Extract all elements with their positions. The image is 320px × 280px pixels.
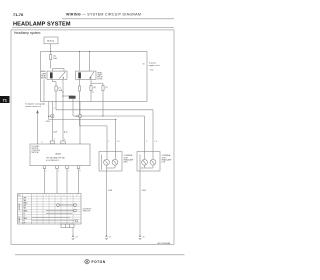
svg-text:71: 71: [2, 97, 7, 102]
svg-text:FOTON: FOTON: [92, 260, 106, 264]
svg-text:16: 16: [143, 64, 145, 66]
svg-text:1 3: 1 3: [155, 141, 157, 143]
svg-text:2: 2: [54, 108, 55, 110]
svg-text:1 3: 1 3: [117, 141, 119, 143]
svg-text:25: 25: [109, 236, 111, 238]
svg-text:OFF: OFF: [23, 197, 26, 199]
svg-text:71-76: 71-76: [13, 12, 24, 17]
svg-text:DIMMER: DIMMER: [19, 216, 21, 223]
svg-text:8: 8: [80, 171, 81, 173]
svg-text:OFF: OFF: [23, 205, 26, 207]
svg-text:(6): (6): [53, 56, 56, 58]
svg-text:WIRING — SYSTEM CIRCUIT DIAGRA: WIRING — SYSTEM CIRCUIT DIAGRAM: [66, 13, 141, 17]
svg-text:LIGHTING: LIGHTING: [19, 203, 21, 211]
svg-text:0.85G: 0.85G: [46, 121, 51, 123]
svg-text:0.85B: 0.85B: [142, 190, 146, 192]
svg-text:supply circuit: supply circuit: [149, 64, 160, 67]
svg-text:5: 5: [58, 171, 59, 173]
svg-text:26: 26: [143, 236, 145, 238]
svg-text:SWITCH): SWITCH): [32, 152, 40, 154]
svg-text:0.85B: 0.85B: [108, 190, 112, 192]
svg-text:(LH): (LH): [162, 162, 166, 164]
svg-text:2: 2: [146, 141, 147, 143]
svg-text:Battery: Battery: [47, 39, 55, 42]
svg-text:HEADLAMP SYSTEM: HEADLAMP SYSTEM: [13, 22, 71, 28]
svg-text:12: 12: [92, 92, 94, 94]
svg-text:(8): (8): [93, 87, 96, 89]
svg-text:system control unit: system control unit: [25, 105, 41, 108]
svg-text:2: 2: [46, 171, 47, 173]
svg-text:fuse: fuse: [150, 70, 154, 72]
svg-text:(LOW): (LOW): [97, 79, 102, 81]
svg-text:(RH): (RH): [124, 162, 128, 164]
svg-text:(HIGH): (HIGH): [41, 78, 47, 80]
svg-text:AC212345AB: AC212345AB: [158, 242, 171, 245]
svg-text:4: 4: [64, 139, 65, 141]
svg-text:Headlamp system: Headlamp system: [14, 31, 41, 35]
svg-text:SWITCH): SWITCH): [83, 211, 91, 213]
svg-text:2: 2: [108, 141, 109, 143]
svg-text:1: 1: [54, 139, 55, 141]
svg-text:24: 24: [76, 236, 78, 238]
svg-text:A-10: A-10: [64, 131, 68, 134]
svg-text:A-09: A-09: [54, 131, 58, 134]
svg-text:3: 3: [42, 142, 43, 144]
svg-text:(M-30): (M-30): [55, 153, 61, 155]
svg-text:7: 7: [68, 171, 69, 173]
svg-text:(9): (9): [105, 87, 108, 89]
